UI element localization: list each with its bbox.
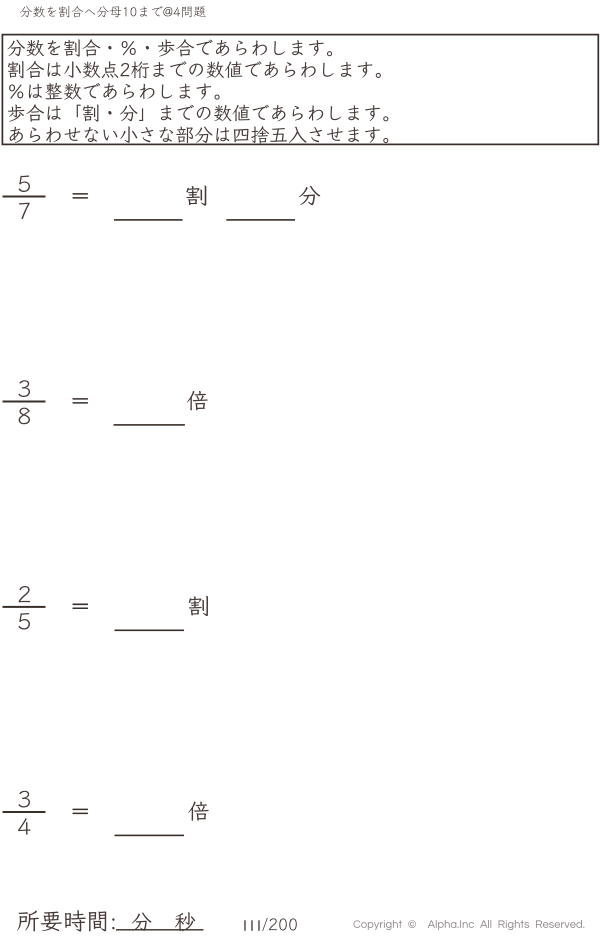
problem 2 answer blank 1	[114, 424, 185, 426]
problem 1 answer blank 1	[114, 219, 183, 221]
footer label 所要時間:	[17, 910, 114, 931]
problem 4 equals sign	[72, 809, 88, 811]
instruction line 5	[10, 126, 389, 143]
footer page number 111/200	[244, 920, 259, 931]
problem 3 fraction bar	[3, 606, 46, 608]
footer page number /200	[262, 918, 296, 931]
instruction line 3	[9, 83, 220, 100]
problem 4 answer blank 1	[115, 835, 185, 837]
problem 3 equals sign	[72, 604, 88, 606]
problem 4 numerator 3	[19, 791, 30, 808]
problem 1 denominator 7	[19, 203, 30, 219]
footer answer underline	[116, 929, 204, 930]
instruction line 1	[7, 39, 332, 56]
problem 3 answer blank 1	[115, 630, 185, 632]
problem 2 equals sign	[72, 398, 88, 400]
footer copyright	[353, 920, 584, 930]
problem 1 unit kanji 割	[186, 186, 206, 206]
footer 秒	[175, 912, 195, 931]
problem 4 denominator 4	[18, 818, 30, 835]
instruction line 4	[8, 104, 389, 121]
problem 3 denominator 5	[19, 613, 30, 629]
problem 1 equals sign	[72, 193, 88, 195]
problem 2 numerator 3	[19, 380, 30, 397]
problem 4 fraction bar	[3, 811, 46, 813]
problem 1 unit kanji 分	[299, 186, 320, 205]
problem 1 fraction bar	[3, 196, 46, 198]
problem 2 denominator 8	[19, 408, 30, 425]
instruction box border	[2, 35, 598, 145]
instruction line 2	[8, 61, 381, 78]
problem 1 answer blank 2	[226, 219, 295, 221]
problem 2 fraction bar	[3, 401, 46, 403]
page title 分数を割合へ分母10まで@4問題	[20, 6, 205, 18]
problem 2 unit kanji 倍	[187, 391, 208, 411]
problem 1 numerator 5	[19, 175, 30, 191]
problem 4 unit kanji 倍	[188, 801, 208, 820]
problem 3 numerator 2	[19, 586, 31, 602]
problem 3 unit kanji 割	[189, 596, 208, 616]
footer 分	[132, 913, 152, 931]
